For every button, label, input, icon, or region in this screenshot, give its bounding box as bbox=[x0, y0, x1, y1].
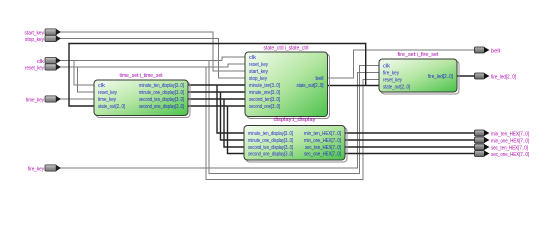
input pin time_key bbox=[26, 96, 61, 103]
wire reset_key net main bbox=[61, 64, 246, 67]
svg-text:sec_ten_HEX[7..0]: sec_ten_HEX[7..0] bbox=[305, 145, 341, 151]
svg-text:reset_key: reset_key bbox=[98, 90, 117, 96]
wire bus fire_led[2..0] bbox=[457, 75, 475, 77]
svg-text:time_key: time_key bbox=[26, 97, 44, 103]
svg-text:second_one[3..0]: second_one[3..0] bbox=[249, 104, 280, 110]
svg-text:second_ten_display[3..0]: second_ten_display[3..0] bbox=[248, 145, 293, 151]
input pin reset_key bbox=[25, 64, 61, 71]
svg-text:stop_key: stop_key bbox=[249, 76, 267, 82]
svg-text:start_key: start_key bbox=[249, 69, 268, 75]
svg-text:time_set:i_time_set: time_set:i_time_set bbox=[120, 73, 163, 79]
output pin bell bbox=[475, 47, 501, 54]
svg-text:stop_key: stop_key bbox=[25, 37, 44, 43]
svg-text:reset_key: reset_key bbox=[383, 78, 402, 84]
svg-text:clk: clk bbox=[98, 83, 105, 89]
wire reset_key branch to fire_set bbox=[206, 67, 379, 179]
output pin min_one_HEX[7..0] bbox=[475, 137, 530, 144]
wire bus sec_one_HEX[7..0] bbox=[345, 153, 475, 155]
svg-text:min_ten_HEX[7..0]: min_ten_HEX[7..0] bbox=[304, 131, 341, 137]
svg-text:second_ten_display[3..0]: second_ten_display[3..0] bbox=[139, 97, 184, 103]
svg-text:clk: clk bbox=[37, 59, 44, 65]
svg-text:state_out[2..0]: state_out[2..0] bbox=[297, 83, 324, 89]
svg-text:min_one_HEX[7..0]: min_one_HEX[7..0] bbox=[491, 138, 529, 144]
input pin start_key bbox=[25, 29, 62, 36]
wire reset_key branch to time_set bbox=[78, 67, 95, 92]
wire time_key net bbox=[61, 98, 95, 100]
svg-text:state_ctrl:i_state_ctrl: state_ctrl:i_state_ctrl bbox=[264, 46, 309, 52]
svg-text:sec_ten_HEX[7..0]: sec_ten_HEX[7..0] bbox=[491, 145, 528, 151]
input pin fire_key bbox=[28, 165, 61, 172]
svg-text:fire_led[2..0]: fire_led[2..0] bbox=[491, 74, 516, 80]
svg-text:clk: clk bbox=[383, 64, 390, 70]
svg-text:sec_one_HEX[7..0]: sec_one_HEX[7..0] bbox=[491, 152, 529, 158]
module state_ctrl:state_ctrl bbox=[245, 46, 330, 119]
svg-text:bell: bell bbox=[316, 76, 324, 82]
wire clk branch to time_set bbox=[74, 61, 94, 86]
svg-text:time_key: time_key bbox=[98, 97, 116, 103]
wire bus min_ten_HEX[7..0] bbox=[345, 132, 475, 134]
wire start_key net bbox=[61, 32, 246, 71]
svg-text:minute_ten[3..0]: minute_ten[3..0] bbox=[249, 83, 280, 89]
svg-text:second_one_display[3..0]: second_one_display[3..0] bbox=[248, 152, 293, 158]
svg-text:min_ten_HEX[7..0]: min_ten_HEX[7..0] bbox=[491, 131, 529, 137]
wire clk net main bbox=[61, 57, 246, 61]
svg-text:fire_key: fire_key bbox=[28, 166, 44, 172]
module time_set:time_set bbox=[94, 73, 190, 118]
output pin fire_led[2..0] bbox=[475, 73, 517, 80]
svg-text:second_ten[3..0]: second_ten[3..0] bbox=[249, 97, 280, 103]
wire bell net bbox=[328, 50, 475, 78]
output pin sec_one_HEX[7..0] bbox=[475, 151, 530, 158]
svg-text:minute_ten_display[3..0]: minute_ten_display[3..0] bbox=[139, 83, 184, 89]
input pin stop_key bbox=[25, 35, 61, 42]
svg-text:bell: bell bbox=[491, 48, 500, 54]
svg-text:state_out[2..0]: state_out[2..0] bbox=[98, 104, 125, 110]
output pin min_ten_HEX[7..0] bbox=[475, 130, 530, 137]
wire bus second_ten_display[3..0] bbox=[188, 99, 245, 147]
module fire_set:fire_set bbox=[379, 52, 459, 94]
module display:display bbox=[244, 117, 347, 162]
svg-text:start_key: start_key bbox=[25, 30, 45, 36]
svg-text:minute_ten_display[3..0]: minute_ten_display[3..0] bbox=[248, 131, 293, 137]
wire bus sec_ten_HEX[7..0] bbox=[345, 146, 475, 148]
svg-text:clk: clk bbox=[249, 55, 256, 61]
wire bus minute_ten_display[3..0] bbox=[188, 85, 245, 133]
wire clk branch to fire_set bbox=[209, 61, 379, 174]
svg-text:reset_key: reset_key bbox=[249, 62, 268, 68]
svg-text:fire_led[2..0]: fire_led[2..0] bbox=[428, 74, 453, 80]
svg-text:minute_one_display[3..0]: minute_one_display[3..0] bbox=[139, 90, 184, 96]
wire bus min_one_HEX[7..0] bbox=[345, 139, 475, 141]
svg-text:state_out[2..0]: state_out[2..0] bbox=[383, 85, 410, 91]
wire fire_key net bbox=[61, 73, 380, 169]
svg-text:fire_key: fire_key bbox=[383, 71, 399, 77]
wire bus state_out[2..0] net bbox=[69, 44, 379, 107]
input pin clk bbox=[37, 57, 61, 64]
svg-text:second_one_display[3..0]: second_one_display[3..0] bbox=[139, 104, 184, 110]
svg-text:reset_key: reset_key bbox=[25, 65, 44, 71]
wire stop_key net bbox=[61, 39, 246, 79]
svg-text:fire_set:i_fire_set: fire_set:i_fire_set bbox=[398, 52, 439, 58]
svg-text:minute_one[3..0]: minute_one[3..0] bbox=[249, 90, 280, 96]
wire bus second_one_display[3..0] bbox=[188, 106, 245, 154]
svg-text:minute_one_display[3..0]: minute_one_display[3..0] bbox=[248, 138, 293, 144]
output pin sec_ten_HEX[7..0] bbox=[475, 144, 529, 151]
svg-text:display:i_display: display:i_display bbox=[274, 117, 316, 123]
svg-text:sec_one_HEX[7..0]: sec_one_HEX[7..0] bbox=[304, 152, 341, 158]
wire bus minute_one_display[3..0] bbox=[188, 92, 245, 140]
svg-text:min_one_HEX[7..0]: min_one_HEX[7..0] bbox=[304, 138, 341, 144]
